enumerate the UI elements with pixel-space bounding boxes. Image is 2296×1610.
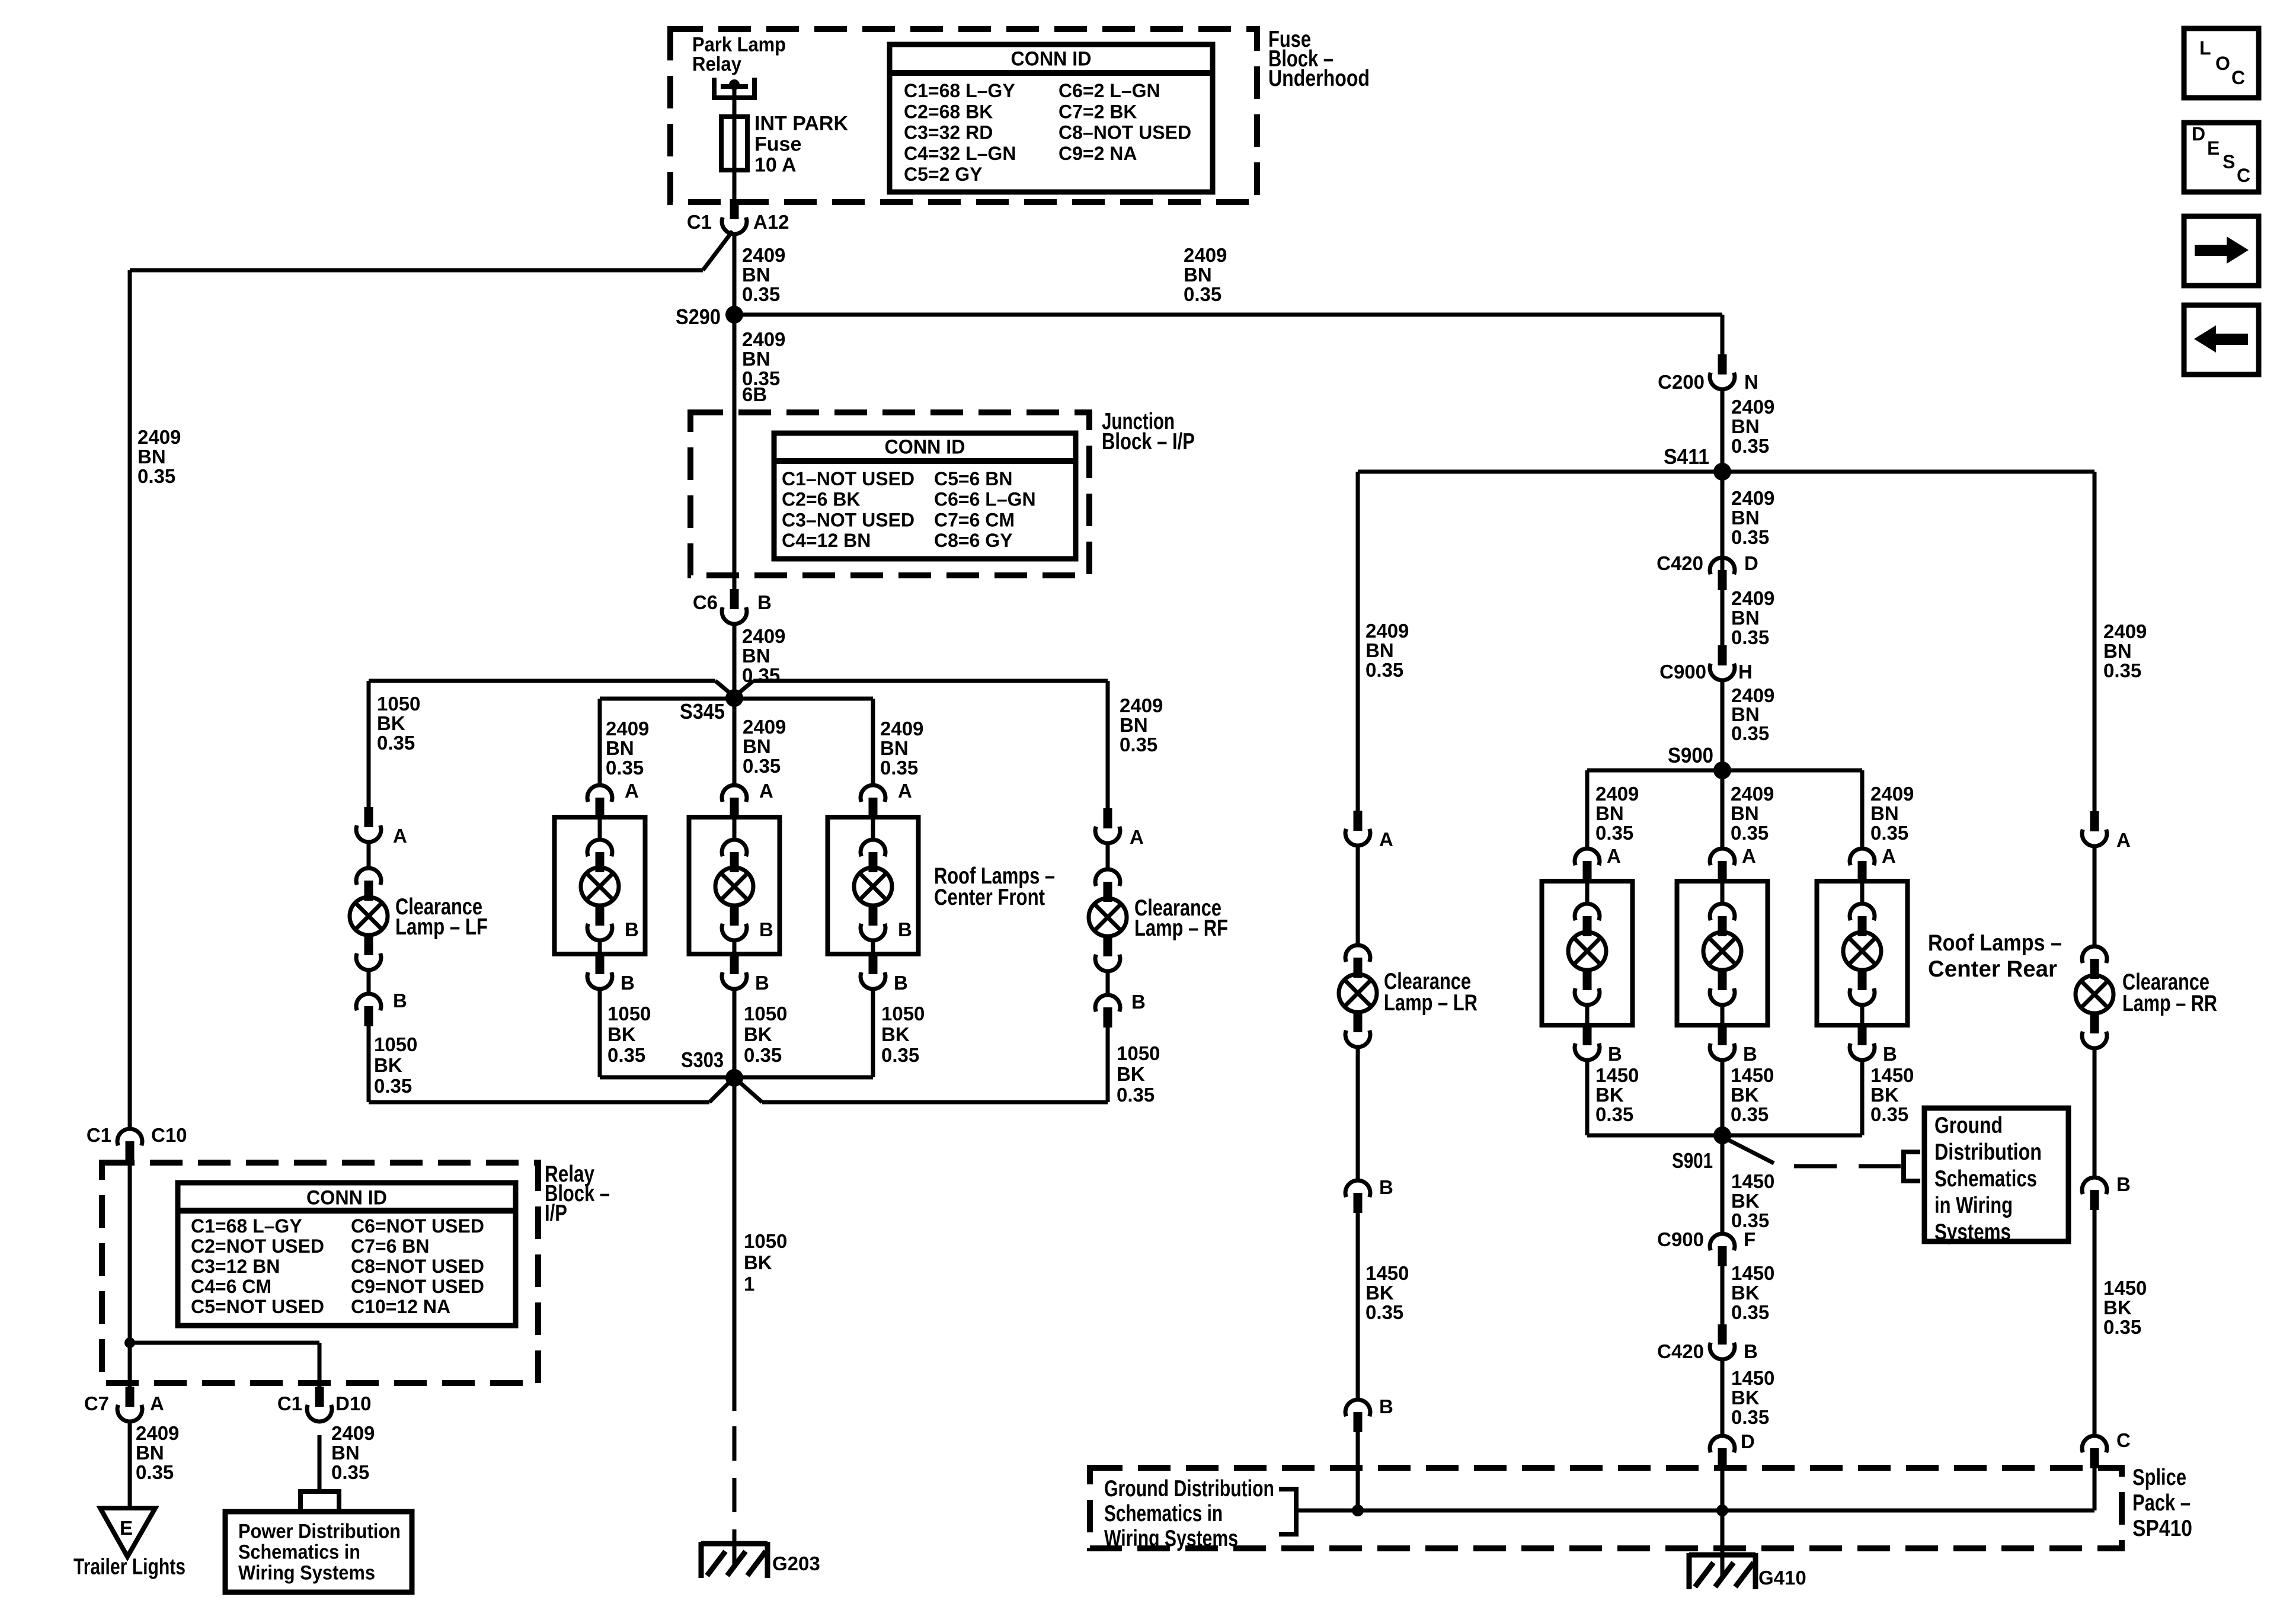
svg-text:2409: 2409: [1731, 783, 1774, 805]
svg-text:C4=12 BN: C4=12 BN: [782, 530, 871, 551]
svg-text:G203: G203: [772, 1553, 820, 1574]
svg-text:BN: BN: [2103, 640, 2132, 662]
svg-text:BK: BK: [1731, 1282, 1760, 1304]
svg-text:B: B: [1744, 1340, 1758, 1362]
svg-text:C: C: [2116, 1429, 2131, 1451]
svg-text:G410: G410: [1758, 1567, 1806, 1589]
svg-text:2409: 2409: [2103, 620, 2147, 642]
svg-text:B: B: [393, 990, 407, 1012]
svg-text:BN: BN: [1731, 802, 1759, 824]
svg-text:B: B: [757, 591, 772, 613]
svg-text:S411: S411: [1664, 444, 1709, 469]
svg-text:BK: BK: [1731, 1387, 1760, 1409]
svg-text:0.35: 0.35: [743, 755, 781, 777]
svg-text:C4=6 CM: C4=6 CM: [191, 1276, 271, 1297]
svg-text:C6=2 L–GN: C6=2 L–GN: [1059, 80, 1160, 101]
svg-text:Trailer Lights: Trailer Lights: [73, 1554, 186, 1579]
svg-text:C1: C1: [687, 211, 712, 233]
svg-text:C6=NOT USED: C6=NOT USED: [351, 1215, 484, 1237]
svg-text:O: O: [2215, 53, 2230, 74]
svg-text:Schematics: Schematics: [1934, 1166, 2037, 1192]
svg-text:1450: 1450: [1731, 1064, 1774, 1086]
svg-text:0.35: 0.35: [1366, 1301, 1403, 1323]
svg-text:C: C: [2231, 67, 2245, 88]
svg-text:C: C: [2237, 165, 2250, 186]
svg-text:0.35: 0.35: [1595, 822, 1633, 844]
svg-text:A: A: [625, 780, 639, 802]
svg-text:2409: 2409: [606, 718, 649, 740]
svg-text:2409: 2409: [1731, 587, 1774, 609]
svg-text:0.35: 0.35: [374, 1075, 412, 1097]
svg-text:S290: S290: [676, 305, 721, 329]
svg-text:BN: BN: [1731, 415, 1760, 437]
svg-text:Ground Distribution: Ground Distribution: [1104, 1476, 1274, 1502]
svg-text:0.35: 0.35: [1120, 734, 1157, 756]
svg-text:BK: BK: [1366, 1282, 1394, 1304]
svg-text:E: E: [2207, 137, 2220, 159]
svg-text:1050: 1050: [377, 693, 420, 715]
svg-text:C1: C1: [277, 1393, 302, 1414]
svg-text:0.35: 0.35: [1117, 1084, 1155, 1106]
svg-text:A: A: [759, 780, 773, 802]
svg-text:Systems: Systems: [1934, 1219, 2011, 1245]
svg-text:2409: 2409: [1870, 783, 1914, 805]
svg-text:0.35: 0.35: [1731, 1301, 1769, 1323]
svg-text:B: B: [1608, 1043, 1622, 1065]
svg-text:BK: BK: [607, 1023, 636, 1045]
svg-text:BK: BK: [1595, 1084, 1624, 1106]
svg-text:0.35: 0.35: [2103, 660, 2141, 681]
svg-text:A: A: [150, 1393, 164, 1414]
svg-text:1450: 1450: [1870, 1064, 1914, 1086]
svg-text:C900: C900: [1657, 1228, 1704, 1250]
svg-text:C420: C420: [1657, 1340, 1704, 1362]
svg-text:BN: BN: [742, 348, 770, 370]
svg-text:Underhood: Underhood: [1268, 66, 1370, 91]
svg-text:BN: BN: [1366, 639, 1394, 661]
svg-text:B: B: [1131, 991, 1146, 1013]
svg-text:C10=12 NA: C10=12 NA: [351, 1296, 450, 1317]
svg-text:I/P: I/P: [545, 1201, 567, 1226]
svg-text:D: D: [2192, 123, 2205, 145]
svg-text:BN: BN: [1731, 607, 1760, 629]
svg-text:B: B: [755, 972, 769, 994]
svg-text:Wiring Systems: Wiring Systems: [1104, 1526, 1238, 1551]
svg-text:B: B: [2116, 1173, 2131, 1195]
svg-text:D10: D10: [335, 1393, 372, 1414]
svg-text:2409: 2409: [1595, 783, 1639, 805]
svg-text:BN: BN: [1184, 264, 1212, 286]
svg-text:C6=6 L–GN: C6=6 L–GN: [934, 489, 1036, 510]
svg-text:C1=68 L–GY: C1=68 L–GY: [904, 80, 1015, 101]
svg-text:A: A: [1882, 845, 1896, 867]
svg-text:2409: 2409: [1731, 396, 1774, 418]
svg-text:1050: 1050: [881, 1003, 925, 1025]
svg-text:2409: 2409: [1184, 244, 1227, 266]
svg-text:BK: BK: [1731, 1190, 1760, 1212]
svg-text:C5=NOT USED: C5=NOT USED: [191, 1296, 324, 1317]
svg-text:BN: BN: [137, 446, 166, 468]
svg-text:A: A: [1130, 826, 1144, 848]
svg-text:2409: 2409: [742, 328, 785, 350]
svg-text:2409: 2409: [331, 1422, 375, 1444]
svg-text:H: H: [1738, 661, 1753, 683]
svg-text:C7=6 CM: C7=6 CM: [934, 509, 1015, 530]
svg-text:E: E: [120, 1517, 133, 1539]
svg-text:Schematics in: Schematics in: [1104, 1501, 1223, 1526]
svg-text:BK: BK: [1870, 1084, 1899, 1106]
svg-text:S: S: [2223, 151, 2235, 172]
svg-text:Block – I/P: Block – I/P: [1102, 429, 1195, 454]
svg-text:10 A: 10 A: [754, 154, 797, 177]
svg-text:0.35: 0.35: [136, 1461, 174, 1483]
svg-text:B: B: [759, 918, 773, 940]
svg-text:BN: BN: [1870, 802, 1899, 824]
svg-text:0.35: 0.35: [331, 1461, 369, 1483]
svg-text:0.35: 0.35: [1595, 1103, 1633, 1125]
svg-text:6B: 6B: [742, 383, 767, 405]
svg-text:A: A: [898, 780, 912, 802]
svg-text:B: B: [1379, 1395, 1393, 1417]
svg-text:F: F: [1744, 1228, 1755, 1250]
svg-text:C1: C1: [87, 1124, 111, 1146]
svg-text:C9=2 NA: C9=2 NA: [1059, 143, 1137, 164]
svg-text:Lamp – RF: Lamp – RF: [1134, 916, 1228, 941]
svg-text:C5=2 GY: C5=2 GY: [904, 164, 983, 185]
svg-text:D: D: [1741, 1430, 1755, 1452]
svg-text:C420: C420: [1657, 552, 1703, 574]
svg-text:C200: C200: [1658, 371, 1705, 393]
svg-text:0.35: 0.35: [742, 283, 780, 305]
svg-text:Center Rear: Center Rear: [1928, 956, 2057, 982]
svg-text:2409: 2409: [742, 244, 785, 266]
svg-text:0.35: 0.35: [137, 465, 175, 487]
svg-text:B: B: [1379, 1176, 1393, 1198]
svg-text:B: B: [894, 972, 908, 994]
svg-text:1450: 1450: [1731, 1367, 1774, 1389]
svg-text:Ground: Ground: [1934, 1113, 2003, 1138]
svg-text:BN: BN: [606, 737, 634, 759]
svg-text:B: B: [621, 972, 635, 994]
svg-text:0.35: 0.35: [1731, 822, 1769, 844]
svg-text:D: D: [1744, 552, 1758, 574]
svg-text:C7=2 BK: C7=2 BK: [1059, 101, 1137, 122]
svg-text:A: A: [393, 825, 407, 847]
svg-text:2409: 2409: [1120, 694, 1163, 716]
svg-text:CONN ID: CONN ID: [306, 1187, 387, 1209]
svg-text:C6: C6: [693, 591, 718, 613]
svg-text:C7: C7: [84, 1393, 109, 1414]
svg-text:Fuse: Fuse: [754, 133, 801, 156]
svg-text:A12: A12: [753, 211, 789, 233]
svg-text:Pack –: Pack –: [2132, 1490, 2191, 1516]
svg-text:0.35: 0.35: [1870, 1103, 1908, 1125]
svg-text:Power Distribution: Power Distribution: [238, 1521, 401, 1543]
svg-text:A: A: [1607, 845, 1621, 867]
svg-text:2409: 2409: [1366, 620, 1409, 642]
svg-text:0.35: 0.35: [1731, 722, 1769, 744]
svg-text:C10: C10: [151, 1124, 187, 1146]
svg-text:2409: 2409: [742, 625, 785, 647]
svg-text:0.35: 0.35: [880, 757, 918, 779]
svg-text:C8=6 GY: C8=6 GY: [934, 530, 1013, 551]
svg-text:2409: 2409: [137, 426, 181, 448]
svg-text:BN: BN: [742, 264, 770, 286]
svg-text:C900: C900: [1659, 661, 1706, 683]
svg-text:1050: 1050: [607, 1003, 651, 1025]
svg-text:INT PARK: INT PARK: [754, 113, 848, 135]
svg-text:0.35: 0.35: [744, 1044, 782, 1066]
svg-text:BN: BN: [880, 737, 909, 759]
svg-text:B: B: [898, 918, 912, 940]
svg-text:BK: BK: [1117, 1063, 1145, 1085]
svg-text:B: B: [1743, 1043, 1757, 1065]
svg-text:BN: BN: [1595, 802, 1624, 824]
svg-text:BK: BK: [1731, 1084, 1759, 1106]
svg-text:BK: BK: [377, 712, 405, 734]
svg-text:L: L: [2199, 37, 2211, 59]
svg-text:1450: 1450: [1731, 1170, 1774, 1192]
svg-text:A: A: [1742, 845, 1756, 867]
svg-text:CONN ID: CONN ID: [1011, 48, 1092, 71]
svg-text:C3–NOT USED: C3–NOT USED: [782, 509, 914, 530]
svg-text:BK: BK: [2103, 1297, 2132, 1318]
svg-text:1450: 1450: [1731, 1262, 1774, 1284]
svg-text:0.35: 0.35: [1731, 435, 1769, 457]
svg-text:0.35: 0.35: [1731, 626, 1769, 648]
svg-text:1050: 1050: [744, 1230, 787, 1252]
svg-text:in Wiring: in Wiring: [1934, 1193, 2013, 1218]
svg-text:C1–NOT USED: C1–NOT USED: [782, 468, 914, 489]
svg-text:2409: 2409: [1731, 487, 1774, 509]
svg-text:Center Front: Center Front: [934, 885, 1045, 910]
svg-text:S901: S901: [1672, 1148, 1713, 1173]
svg-text:2409: 2409: [743, 716, 786, 738]
svg-text:BN: BN: [1731, 507, 1760, 529]
svg-text:Distribution: Distribution: [1934, 1140, 2042, 1165]
svg-text:C3=12 BN: C3=12 BN: [191, 1256, 280, 1277]
svg-text:B: B: [1883, 1043, 1897, 1065]
svg-text:Roof Lamps –: Roof Lamps –: [1928, 930, 2062, 956]
svg-text:1450: 1450: [1595, 1064, 1639, 1086]
svg-text:A: A: [1379, 828, 1393, 850]
svg-text:BN: BN: [136, 1442, 164, 1464]
svg-text:S303: S303: [681, 1048, 724, 1072]
svg-text:N: N: [1744, 371, 1758, 393]
svg-text:B: B: [625, 918, 639, 940]
svg-text:0.35: 0.35: [1184, 283, 1221, 305]
svg-text:C3=32 RD: C3=32 RD: [904, 122, 993, 143]
svg-text:0.35: 0.35: [2103, 1316, 2141, 1338]
svg-text:S345: S345: [680, 699, 725, 724]
svg-text:C7=6 BN: C7=6 BN: [351, 1235, 430, 1257]
svg-text:0.35: 0.35: [606, 757, 644, 779]
svg-text:Lamp – RR: Lamp – RR: [2122, 991, 2217, 1016]
svg-text:Lamp – LF: Lamp – LF: [395, 914, 488, 940]
svg-text:1050: 1050: [1117, 1042, 1160, 1064]
svg-text:1050: 1050: [374, 1033, 417, 1055]
svg-text:C8=NOT USED: C8=NOT USED: [351, 1256, 484, 1277]
svg-text:C2=NOT USED: C2=NOT USED: [191, 1235, 324, 1257]
svg-text:Schematics in: Schematics in: [238, 1541, 360, 1564]
svg-text:C5=6 BN: C5=6 BN: [934, 468, 1013, 489]
svg-text:BK: BK: [374, 1054, 402, 1076]
svg-text:1450: 1450: [2103, 1277, 2147, 1299]
svg-text:C1=68 L–GY: C1=68 L–GY: [191, 1215, 302, 1237]
svg-text:0.35: 0.35: [1870, 822, 1908, 844]
svg-text:BN: BN: [742, 645, 770, 667]
svg-text:A: A: [2116, 829, 2131, 851]
svg-text:Relay: Relay: [692, 53, 741, 76]
svg-text:BN: BN: [331, 1442, 360, 1464]
svg-text:0.35: 0.35: [607, 1044, 645, 1066]
svg-text:SP410: SP410: [2132, 1516, 2192, 1541]
svg-text:0.35: 0.35: [1731, 1406, 1769, 1428]
svg-text:CONN ID: CONN ID: [885, 436, 965, 459]
svg-text:1: 1: [744, 1273, 754, 1295]
svg-text:0.35: 0.35: [1731, 1103, 1769, 1125]
svg-text:1050: 1050: [744, 1003, 787, 1025]
svg-text:C9=NOT USED: C9=NOT USED: [351, 1276, 484, 1297]
svg-text:C2=6 BK: C2=6 BK: [782, 489, 861, 510]
svg-text:BN: BN: [743, 735, 771, 757]
svg-text:C4=32 L–GN: C4=32 L–GN: [904, 143, 1016, 164]
svg-text:BN: BN: [1120, 714, 1148, 736]
svg-text:2409: 2409: [880, 718, 923, 740]
svg-text:1450: 1450: [1366, 1262, 1409, 1284]
svg-text:Splice: Splice: [2132, 1465, 2186, 1490]
svg-text:2409: 2409: [136, 1422, 179, 1444]
svg-text:C2=68 BK: C2=68 BK: [904, 101, 993, 122]
svg-text:BK: BK: [744, 1251, 772, 1273]
svg-text:0.35: 0.35: [1731, 526, 1769, 548]
svg-text:0.35: 0.35: [377, 732, 415, 754]
svg-text:0.35: 0.35: [1366, 659, 1403, 681]
svg-text:Lamp – LR: Lamp – LR: [1384, 990, 1478, 1016]
svg-text:S900: S900: [1668, 743, 1713, 767]
svg-text:BK: BK: [744, 1023, 772, 1045]
svg-text:Wiring Systems: Wiring Systems: [238, 1562, 375, 1585]
svg-text:C8–NOT USED: C8–NOT USED: [1059, 122, 1191, 143]
svg-text:BK: BK: [881, 1023, 910, 1045]
svg-text:0.35: 0.35: [881, 1044, 919, 1066]
